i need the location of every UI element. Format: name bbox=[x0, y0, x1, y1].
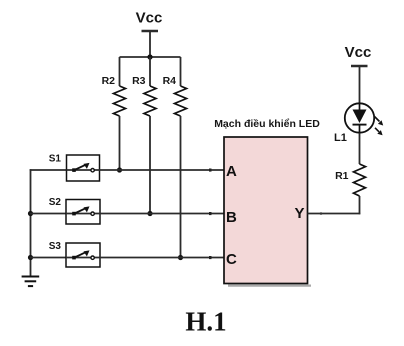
pin mark A bbox=[209, 169, 212, 172]
wire top rail bbox=[120, 56, 181, 58]
svg-text:Vcc: Vcc bbox=[345, 44, 372, 61]
resistor R4 bbox=[163, 57, 187, 116]
junction (node A / R2) bbox=[117, 167, 122, 172]
power Vcc (top) bbox=[136, 10, 163, 58]
svg-text:S1: S1 bbox=[49, 154, 62, 165]
junction (Vcc rail) bbox=[147, 54, 152, 59]
junction (bus / S2 row) bbox=[28, 211, 33, 216]
resistor R1 bbox=[335, 164, 365, 196]
wire Y output bbox=[308, 213, 361, 215]
svg-text:S3: S3 bbox=[49, 241, 62, 252]
wire S3 to pin C bbox=[100, 257, 224, 259]
svg-text:C: C bbox=[226, 251, 237, 268]
junction (node B / R3) bbox=[147, 211, 152, 216]
wire bus to S1 bbox=[30, 169, 67, 171]
wire bus to S3 bbox=[30, 257, 66, 259]
pin mark Y bbox=[320, 212, 323, 215]
wire R1 to Y node bbox=[359, 196, 361, 214]
svg-text:L1: L1 bbox=[334, 132, 347, 144]
LED L1 bbox=[334, 103, 383, 144]
ground bbox=[22, 277, 40, 287]
svg-text:S2: S2 bbox=[49, 197, 62, 208]
box shadow bbox=[228, 285, 311, 287]
switch S1 bbox=[49, 154, 100, 182]
wire S2 to pin B bbox=[100, 213, 224, 215]
wire R3 to node B bbox=[149, 116, 151, 214]
wire left bus (switch commons to ground) bbox=[30, 169, 32, 276]
wire bus to S2 bbox=[30, 213, 66, 215]
svg-text:Y: Y bbox=[294, 205, 304, 222]
svg-text:R2: R2 bbox=[102, 75, 116, 87]
junction (bus / S3 row) bbox=[28, 255, 33, 260]
resistor R3 bbox=[132, 57, 156, 116]
LED controller block U1 bbox=[214, 118, 320, 283]
wire R4 to node C bbox=[180, 116, 182, 258]
junction (node C / R4) bbox=[178, 255, 183, 260]
switch S2 bbox=[49, 197, 100, 224]
switch S3 bbox=[49, 241, 100, 267]
svg-text:H.1: H.1 bbox=[185, 306, 226, 336]
svg-text:Mạch điều khiển LED: Mạch điều khiển LED bbox=[214, 118, 320, 130]
resistor R2 bbox=[102, 57, 126, 116]
power Vcc (right) bbox=[345, 44, 372, 103]
svg-text:R1: R1 bbox=[335, 170, 349, 182]
wire LED to R1 bbox=[359, 133, 361, 164]
wire S1 to pin A bbox=[100, 169, 225, 171]
pin mark B bbox=[209, 212, 212, 215]
svg-text:B: B bbox=[226, 209, 237, 226]
svg-text:Vcc: Vcc bbox=[136, 10, 163, 27]
svg-text:R4: R4 bbox=[163, 75, 177, 87]
wire R2 to node A bbox=[119, 116, 121, 170]
svg-text:R3: R3 bbox=[132, 75, 146, 87]
pin mark C bbox=[209, 256, 212, 259]
svg-text:A: A bbox=[226, 163, 237, 180]
